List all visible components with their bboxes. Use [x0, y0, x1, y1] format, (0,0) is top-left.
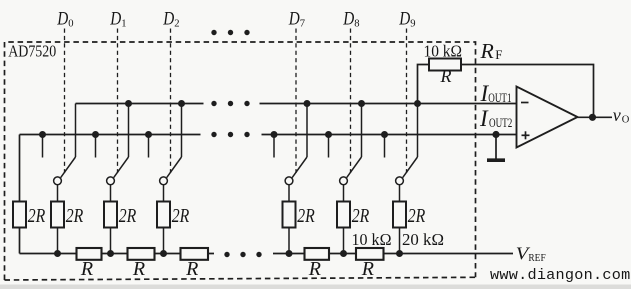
- wire I_OUT1 bus upper left segment: [76, 103, 204, 105]
- input label D0: [56, 9, 73, 29]
- wire ladder rail right section: [273, 253, 400, 255]
- pin label I_OUT2: [479, 106, 512, 131]
- svg-text:OUT1: OUT1: [488, 91, 511, 105]
- svg-text:R: R: [308, 258, 321, 280]
- junction dot on I_OUT2 bus at switch S9 stub: [381, 131, 388, 138]
- junction dot on I_OUT2 bus at switch S0 stub: [39, 131, 46, 138]
- resistor 2R bit 1: [104, 202, 117, 228]
- junction dot on I_OUT2 bus at switch S2 stub: [145, 131, 152, 138]
- svg-text:R: R: [80, 258, 93, 280]
- watermark www.diangon.com: [490, 266, 630, 284]
- junction dot at op-amp output node: [589, 114, 596, 121]
- op-amp non-inverting input marker plus: [522, 131, 530, 139]
- resistor 2R bit 9: [393, 202, 406, 228]
- input label D8: [342, 9, 359, 29]
- svg-text:2R: 2R: [28, 205, 46, 227]
- junction dot on I_OUT2 bus at switch S8 stub: [325, 131, 332, 138]
- ground symbol at op-amp non-inverting input: [487, 135, 505, 161]
- junction dot on ladder rail at bit 7 node: [286, 250, 293, 257]
- svg-text:www.diangon.com: www.diangon.com: [490, 266, 630, 284]
- ellipsis dots on ladder rail: [224, 252, 261, 257]
- value label 2R bit 2: [172, 205, 190, 227]
- switch S1 lever thrown to I_OUT1 side: [114, 157, 129, 178]
- wire I_OUT1 contact drop of switch S0: [75, 104, 77, 158]
- wire switch S7 pole to resistor 2R: [288, 185, 290, 202]
- wire stub I_OUT2 contact of switch S2: [148, 135, 150, 158]
- dashed control line from D9 to switch S9: [406, 29, 408, 174]
- dashed control line from D7 to switch S7: [295, 29, 297, 174]
- svg-text:2R: 2R: [119, 205, 137, 227]
- wire switch S0 pole to resistor 2R: [57, 185, 59, 202]
- svg-text:D: D: [56, 9, 68, 29]
- resistor RF 10 kOhm feedback: [429, 59, 461, 71]
- value label 10 kOhm for RF: [424, 42, 463, 61]
- AD7520 package dashed outline: [5, 42, 476, 280]
- value label 20 kOhm for bit 9 2R: [402, 230, 444, 249]
- junction dot on I_OUT1 bus at switch S8 contact: [358, 100, 365, 107]
- wire stub I_OUT2 contact of switch S0: [42, 135, 44, 158]
- switch S8 pole circle: [340, 177, 348, 185]
- svg-text:10 kΩ: 10 kΩ: [424, 42, 463, 61]
- svg-text:AD7520: AD7520: [8, 41, 56, 60]
- wire stub I_OUT2 contact of switch S1: [95, 135, 97, 158]
- svg-text:R: R: [479, 39, 494, 63]
- wire resistor 2R bit 1 to ladder rail: [110, 228, 112, 254]
- switch S2 pole circle: [160, 177, 168, 185]
- pin label I_OUT1: [480, 81, 512, 106]
- wire I_OUT1 contact drop of switch S1: [128, 104, 130, 158]
- svg-text:10 kΩ: 10 kΩ: [352, 230, 392, 249]
- junction dot on I_OUT2 bus at switch S1 stub: [92, 131, 99, 138]
- junction dot on I_OUT2 bus at switch S7 stub: [271, 131, 278, 138]
- wire I_OUT2 bus left end down to terminator resistor: [19, 135, 21, 202]
- switch S0 lever thrown to I_OUT1 side: [61, 157, 76, 178]
- wire I_OUT1 contact drop of switch S9: [417, 104, 419, 158]
- ellipsis dots on I_OUT1 bus: [211, 101, 249, 106]
- ellipsis dots top row between D2 and D7: [211, 30, 249, 35]
- wire terminator 2R to ladder rail left end: [19, 228, 21, 254]
- wire V_REF lead from bit 9 node: [400, 253, 514, 255]
- output label v_O: [613, 105, 630, 126]
- resistor R bit8-bit9 on ladder rail: [356, 248, 384, 260]
- wire I_OUT2 bus left segment: [20, 134, 201, 136]
- wire stub I_OUT2 contact of switch S8: [328, 135, 330, 158]
- resistor R bit2-right on ladder rail: [181, 248, 209, 260]
- wire I_OUT1 bus right segment to op-amp inverting input: [260, 103, 517, 105]
- svg-text:0: 0: [68, 18, 73, 29]
- svg-text:v: v: [613, 105, 621, 125]
- junction dot on I_OUT1 bus at switch S2 contact: [178, 100, 185, 107]
- wire op-amp output: [578, 116, 613, 118]
- resistor R bit7-bit8 on ladder rail: [305, 248, 330, 260]
- svg-text:2R: 2R: [408, 205, 426, 227]
- junction dot on I_OUT1 bus at switch S7 contact: [304, 100, 311, 107]
- svg-text:R: R: [132, 258, 145, 280]
- wire switch S1 pole to resistor 2R: [110, 185, 112, 202]
- resistor R bit0-bit1 on ladder rail: [77, 248, 102, 260]
- resistor 2R bit 8: [337, 202, 350, 228]
- switch S0 pole circle: [54, 177, 62, 185]
- svg-text:OUT2: OUT2: [489, 116, 512, 130]
- svg-text:D: D: [342, 9, 354, 29]
- wire resistor 2R bit 9 to ladder rail: [399, 228, 401, 254]
- svg-text:2: 2: [174, 18, 179, 29]
- junction dot on ladder rail at bit 2 node: [160, 250, 167, 257]
- wire I_OUT1 contact drop of switch S8: [361, 104, 363, 158]
- value label 10 kOhm for ladder R: [352, 230, 392, 249]
- dashed control line from D0 to switch S0: [64, 29, 66, 174]
- switch S1 pole circle: [107, 177, 115, 185]
- value label 2R bit 1: [119, 205, 137, 227]
- svg-text:2R: 2R: [297, 205, 315, 227]
- pin label R_F: [479, 39, 502, 63]
- svg-text:R: R: [361, 258, 374, 280]
- value label R for R bit0-bit1: [80, 258, 93, 280]
- switch S8 lever thrown to I_OUT1 side: [347, 157, 362, 178]
- wire switch S2 pole to resistor 2R: [163, 185, 165, 202]
- svg-text:R: R: [440, 66, 452, 86]
- svg-text:F: F: [495, 47, 502, 62]
- switch S7 pole circle: [285, 177, 293, 185]
- junction dot on ladder rail at bit 0 node: [54, 250, 61, 257]
- value label R for R bit1-bit2: [132, 258, 145, 280]
- op-amp A1 triangle: [517, 87, 578, 148]
- switch S9 lever thrown to I_OUT1 side: [403, 157, 418, 178]
- junction dot on I_OUT1 bus at switch S1 contact: [125, 100, 132, 107]
- wire resistor 2R bit 7 to ladder rail: [288, 228, 290, 254]
- value label R for R bit7-bit8: [308, 258, 321, 280]
- dashed control line from D8 to switch S8: [350, 29, 352, 174]
- svg-text:D: D: [162, 9, 174, 29]
- resistor R bit1-bit2 on ladder rail: [128, 248, 155, 260]
- svg-text:R: R: [185, 258, 198, 280]
- wire I_OUT2 bus right segment to op-amp non-inverting input: [262, 134, 517, 136]
- svg-text:2R: 2R: [66, 205, 84, 227]
- switch S2 lever thrown to I_OUT1 side: [167, 157, 182, 178]
- input label D2: [162, 9, 179, 29]
- value label R for R bit8-bit9: [361, 258, 374, 280]
- wire switch S9 pole to resistor 2R: [399, 185, 401, 202]
- value label R for R bit2-right: [185, 258, 198, 280]
- dashed control line from D1 to switch S1: [117, 29, 119, 174]
- wire resistor 2R bit 0 to ladder rail: [57, 228, 59, 254]
- junction dot on ladder rail at bit 1 node: [107, 250, 114, 257]
- resistor 2R ladder terminator: [13, 202, 26, 228]
- wire resistor 2R bit 8 to ladder rail: [343, 228, 345, 254]
- svg-text:O: O: [622, 115, 630, 126]
- value label 2R bit 0: [66, 205, 84, 227]
- svg-text:8: 8: [354, 18, 359, 29]
- switch S9 pole circle: [396, 177, 404, 185]
- resistor 2R bit 2: [157, 202, 170, 228]
- svg-text:D: D: [398, 9, 410, 29]
- wire I_OUT1 contact drop of switch S7: [306, 104, 308, 158]
- resistor 2R bit 7: [283, 202, 296, 228]
- value label 2R bit 8: [352, 205, 370, 227]
- scanner gray band at bottom edge: [0, 285, 631, 289]
- svg-text:D: D: [109, 9, 121, 29]
- value label R for RF: [440, 66, 452, 86]
- svg-text:9: 9: [410, 18, 415, 29]
- net label V_REF: [516, 243, 546, 264]
- wire I_OUT1 contact drop of switch S2: [181, 104, 183, 158]
- value label 2R terminator: [28, 205, 46, 227]
- switch S7 lever thrown to I_OUT1 side: [292, 157, 307, 178]
- wire ladder rail left section: [20, 253, 215, 255]
- wire from I_OUT1 junction up to feedback resistor RF: [418, 65, 430, 104]
- input label D9: [398, 9, 415, 29]
- input label D7: [288, 9, 305, 29]
- input label D1: [109, 9, 126, 29]
- svg-text:D: D: [288, 9, 300, 29]
- wire resistor 2R bit 2 to ladder rail: [163, 228, 165, 254]
- wire stub I_OUT2 contact of switch S7: [273, 135, 275, 158]
- svg-text:I: I: [479, 106, 489, 131]
- ellipsis dots on I_OUT2 bus: [211, 132, 249, 137]
- wire switch S8 pole to resistor 2R: [343, 185, 345, 202]
- junction dot on I_OUT2 at ground tap: [492, 131, 499, 138]
- svg-text:20 kΩ: 20 kΩ: [402, 230, 444, 249]
- junction dot on ladder rail at bit 8 node: [340, 250, 347, 257]
- wire RF to op-amp output node feedback: [461, 65, 594, 118]
- junction dot on I_OUT1 bus at switch S9 contact: [414, 100, 421, 107]
- svg-text:2R: 2R: [172, 205, 190, 227]
- svg-text:7: 7: [300, 18, 305, 29]
- svg-text:1: 1: [121, 18, 126, 29]
- op-amp inverting input marker minus: [521, 102, 529, 104]
- label AD7520: [8, 41, 56, 60]
- svg-text:2R: 2R: [352, 205, 370, 227]
- value label 2R bit 7: [297, 205, 315, 227]
- dashed control line from D2 to switch S2: [170, 29, 172, 174]
- resistor 2R bit 0: [51, 202, 64, 228]
- svg-text:REF: REF: [528, 253, 545, 264]
- junction dot on ladder rail at bit 9 node: [396, 250, 403, 257]
- wire stub I_OUT2 contact of switch S9: [384, 135, 386, 158]
- value label 2R bit 9: [408, 205, 426, 227]
